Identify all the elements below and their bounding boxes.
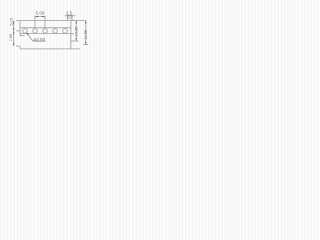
tab dim ext right [71, 15, 73, 18]
left dim arrow up [13, 21, 14, 24]
top dim extension line right [44, 16, 46, 29]
tab on top [67, 18, 72, 21]
extension line right at y41 [71, 40, 78, 42]
arrowhead top-dim left [35, 16, 38, 17]
arrowhead top-dim right [42, 16, 45, 17]
svg-text:ø2.00: ø2.00 [33, 37, 45, 42]
right dim line 1 [75, 21, 77, 41]
leader line [26, 33, 33, 41]
body bottom-left stub [20, 35, 25, 37]
body top edge with extension to right dims [16, 20, 86, 22]
inner line below holes [20, 33, 71, 35]
left dim line [13, 21, 15, 46]
svg-text:10.05: 10.05 [75, 27, 79, 37]
left dim arrows middle [13, 28, 14, 31]
lower-left extension stub [16, 45, 19, 47]
body left edge [19, 21, 21, 36]
right dim 2 bottom cross [83, 44, 88, 46]
right dim line 2 [85, 21, 87, 45]
lower-left vertical edge [19, 46, 21, 49]
arrowhead block tab dim [67, 15, 69, 16]
top dim extension line left [34, 16, 36, 29]
body right feature edge [70, 21, 72, 49]
svg-text:5.00: 5.00 [36, 10, 45, 15]
leader arrowhead [26, 33, 29, 35]
svg-text:5.15: 5.15 [9, 18, 13, 25]
svg-text:7.65: 7.65 [9, 34, 13, 41]
hole 3 [43, 29, 48, 34]
right dim1 arrows [76, 21, 77, 24]
top dim line 5.00 [35, 16, 45, 18]
hole 1 [23, 29, 28, 34]
inner line above holes [20, 27, 71, 29]
right dim 1 bottom ext [71, 33, 74, 35]
hole 2 [33, 29, 38, 34]
hole 4 [53, 29, 58, 34]
tab dim ext left [66, 15, 68, 18]
leader shelf [33, 40, 46, 42]
left mid extension stub [16, 30, 19, 32]
svg-text:2.5: 2.5 [66, 10, 72, 15]
svg-text:11.95: 11.95 [84, 30, 88, 39]
left dim arrow down [13, 43, 14, 46]
tab dim line 2.5 [65, 15, 76, 17]
right dim2 arrows [85, 21, 86, 24]
hole 5 [63, 29, 68, 34]
bottom edge line [20, 48, 80, 50]
